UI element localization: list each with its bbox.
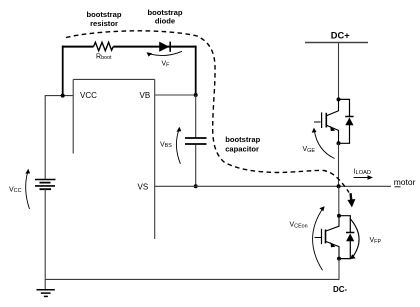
wire: right vertical of loop down to VB (bold) [195, 46, 197, 95]
svg-text:motor: motor [394, 177, 416, 187]
emitter arrowhead Q2 [330, 242, 335, 247]
svg-text:VF: VF [162, 61, 171, 69]
wire: VS line from IC to motor [155, 185, 391, 187]
arrow arc VBS [176, 130, 180, 164]
wire: bootstrap capacitor branch lower [195, 145, 197, 187]
arrow arc VF [149, 51, 182, 55]
svg-text:capacitor: capacitor [225, 145, 259, 154]
node VS junction [194, 184, 198, 188]
gate bar [321, 229, 323, 244]
arrow arc VGE [314, 131, 334, 159]
svg-text:VS: VS [138, 183, 149, 192]
svg-text:ILOAD: ILOAD [354, 168, 371, 176]
collector diagonal [326, 216, 339, 231]
resistor Rboot zigzag [94, 42, 114, 50]
collector diagonal [327, 99, 339, 115]
svg-text:bootstrap: bootstrap [86, 10, 121, 19]
svg-text:bootstrap: bootstrap [225, 135, 260, 144]
wire: low-side emitter down to DC- rail corner [338, 259, 340, 280]
wire: DC+ down to high-side collector [338, 43, 340, 100]
thick charge-current arrow [347, 193, 355, 207]
node Q1 emitter [337, 141, 341, 145]
node motor junction [337, 184, 341, 188]
diode D2 freewheel branch wires [339, 216, 350, 259]
diode D bootstrap (triangle + cathode bar) [159, 42, 169, 52]
gate lead [314, 121, 321, 123]
gate lead [315, 237, 322, 239]
IC box right edge [154, 79, 156, 239]
emitter diagonal [326, 242, 339, 259]
wire: VCC feed from battery to IC [45, 96, 73, 180]
transistor Q2 low-side IGBT [315, 216, 340, 259]
svg-text:VCC: VCC [80, 91, 97, 100]
node Q2 collector [337, 214, 341, 218]
diode D2 cathode bar [346, 232, 354, 234]
diode D1 triangle [345, 118, 353, 126]
capacitor C bootstrap plates [185, 138, 207, 144]
wire: bootstrap capacitor branch upper [195, 95, 197, 137]
svg-text:VCEon: VCEon [290, 222, 308, 230]
wire: VB pin to bootstrap node [155, 94, 196, 96]
wire: top bootstrap loop horizontal (bold) [62, 46, 197, 48]
arrow ILOAD [354, 177, 370, 179]
gate bar [321, 112, 323, 128]
dashed bootstrap charge path [66, 31, 349, 193]
emitter diagonal [327, 125, 339, 143]
label bootstrap diode [147, 8, 182, 25]
battery VCC plates [35, 180, 56, 186]
wire: battery minus down to ground/rail [44, 189, 46, 289]
emitter arrowhead Q1 [330, 126, 335, 131]
node Q2 emitter [337, 257, 341, 261]
wire: motor node down to low-side collector [338, 186, 340, 215]
ground symbol [37, 289, 55, 291]
svg-text:DC+: DC+ [331, 31, 350, 41]
body bar [325, 230, 327, 244]
svg-text:resistor: resistor [90, 19, 118, 28]
svg-text:VBS: VBS [160, 141, 172, 149]
label bootstrap resistor [86, 10, 121, 28]
diode D2 triangle [346, 234, 354, 242]
wire: bottom DC- rail [45, 278, 339, 280]
svg-text:Rboot: Rboot [96, 53, 112, 61]
label bootstrap capacitor [225, 135, 260, 154]
svg-text:VFP: VFP [370, 237, 382, 245]
arrow arc VCEon [313, 209, 323, 271]
IC box top edge [73, 78, 155, 80]
wire: high-side emitter to motor node [338, 143, 340, 186]
arrow arc VFP [350, 219, 359, 257]
IC box left edge [72, 79, 74, 153]
body bar [325, 113, 327, 128]
arrow arc Vcc [26, 172, 30, 210]
node Q1 collector [337, 97, 341, 101]
svg-text:VGE: VGE [303, 146, 316, 154]
svg-text:VCC: VCC [9, 186, 22, 194]
svg-text:DC-: DC- [333, 285, 348, 294]
diode D1 cathode bar [345, 116, 353, 118]
svg-text:diode: diode [155, 16, 175, 25]
node VB junction [194, 93, 198, 97]
wire: left vertical of loop (bold) [62, 46, 64, 96]
svg-text:VB: VB [140, 91, 151, 100]
motor underline [395, 186, 401, 188]
wire: DC+ rail [305, 42, 368, 44]
transistor Q1 high-side IGBT [314, 99, 339, 143]
diode D1 freewheel branch wires [339, 99, 350, 143]
node: VCC tee junction [61, 94, 65, 98]
